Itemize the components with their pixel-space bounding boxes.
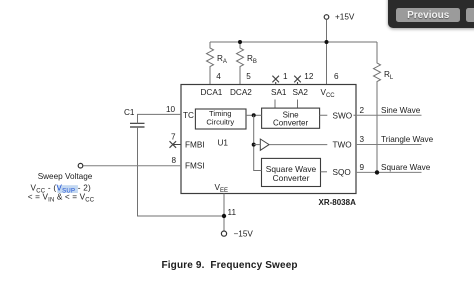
label TWO [333, 141, 352, 150]
wire buffer input [254, 144, 261, 146]
button Previous [396, 8, 460, 23]
svg-text:TWO: TWO [333, 141, 352, 150]
svg-text:6: 6 [334, 72, 339, 81]
label FMSI [185, 162, 205, 171]
label VEE pin [215, 183, 228, 194]
wire C1 bottom to VEE [138, 127, 225, 216]
svg-text:FMSI: FMSI [185, 162, 205, 171]
label XR-8038A [319, 198, 357, 207]
wire internal vertical [254, 115, 262, 170]
label RB [247, 54, 257, 65]
svg-text:XR-8038A: XR-8038A [319, 198, 357, 207]
label U1 [218, 138, 229, 147]
svg-text:SA2: SA2 [293, 88, 309, 97]
svg-text:VCC: VCC [321, 88, 336, 99]
svg-text:SWO: SWO [333, 111, 353, 120]
label sweep formula [31, 184, 92, 195]
label SA2 [293, 88, 309, 97]
pin 10 [166, 105, 176, 114]
wire top supply bus [210, 41, 377, 43]
svg-text:11: 11 [228, 208, 237, 217]
svg-text:C1: C1 [124, 108, 135, 117]
no-connect X pin 1 SA1 [272, 76, 279, 85]
button next fragment [466, 8, 474, 23]
svg-text:U1: U1 [218, 138, 229, 147]
svg-text:Circuitry: Circuitry [206, 118, 234, 127]
pin 4 [216, 72, 221, 81]
wire square wave output [356, 171, 422, 173]
svg-text:TC: TC [183, 111, 194, 120]
pin 7 [171, 133, 176, 142]
svg-text:Sweep Voltage: Sweep Voltage [38, 172, 93, 181]
wire VEE pin 11 [223, 194, 225, 231]
svg-text:−15V: −15V [234, 230, 254, 239]
svg-text:Figure 9. Frequency Sweep: Figure 9. Frequency Sweep [162, 260, 298, 271]
svg-text:4: 4 [216, 72, 221, 81]
node pin11 junction [222, 214, 226, 218]
block Sine Converter [262, 108, 320, 128]
wire SA2 stub [297, 100, 299, 109]
svg-text:Triangle Wave: Triangle Wave [381, 135, 434, 144]
block Timing Circuitry [195, 109, 246, 129]
svg-text:RL: RL [384, 70, 394, 81]
svg-text:8: 8 [172, 156, 177, 165]
svg-text:Square Wave: Square Wave [381, 163, 431, 172]
terminal sweep voltage [78, 163, 83, 168]
svg-text:DCA1: DCA1 [201, 88, 223, 97]
svg-text:5: 5 [246, 72, 251, 81]
wire sweep input FMSI [83, 165, 181, 167]
label SA1 [271, 88, 287, 97]
svg-text:Converter: Converter [273, 119, 308, 128]
pin 2 [360, 106, 365, 115]
label sweep range [28, 192, 95, 203]
no-connect X pin 12 SA2 [294, 76, 301, 85]
svg-text:10: 10 [166, 105, 176, 114]
node buffer junction [252, 143, 256, 147]
label +15V [335, 13, 355, 22]
svg-text:12: 12 [304, 72, 314, 81]
label C1 [124, 108, 135, 117]
resistor RL [374, 42, 381, 172]
svg-text:2: 2 [360, 106, 365, 115]
label VCC pin [321, 88, 336, 99]
label Triangle Wave [381, 135, 434, 144]
block Square Wave Converter [262, 158, 321, 186]
svg-text:1: 1 [283, 72, 288, 81]
+15V terminal [324, 15, 329, 20]
pin 12 [304, 72, 314, 81]
no-connect X pin 7 FMBI [170, 141, 182, 148]
junction VCC bus [325, 40, 329, 44]
svg-text:VEE: VEE [215, 183, 228, 194]
svg-text:SA1: SA1 [271, 88, 287, 97]
resistor RB [237, 42, 244, 85]
svg-text:9: 9 [360, 163, 365, 172]
svg-text:RA: RA [217, 54, 227, 65]
label FMBI [185, 141, 205, 150]
label Sweep Voltage [38, 172, 93, 181]
svg-text:+15V: +15V [335, 13, 355, 22]
wire timing to sine [246, 114, 262, 116]
capacitor C1 [130, 123, 145, 127]
pin 9 [360, 163, 365, 172]
wire TC pin10 [138, 114, 182, 123]
terminal -15V [221, 231, 226, 236]
label SQO [333, 168, 351, 177]
label RL [384, 70, 394, 81]
pin 3 [360, 135, 365, 144]
label Square Wave [381, 163, 431, 172]
svg-text:FMBI: FMBI [185, 141, 205, 150]
pin 5 [246, 72, 251, 81]
svg-text:3: 3 [360, 135, 365, 144]
pin 8 [172, 156, 177, 165]
node timing-sine junction [252, 113, 256, 117]
wire SA1 stub [274, 100, 276, 109]
svg-text:Sine Wave: Sine Wave [381, 106, 421, 115]
svg-text:RB: RB [247, 54, 257, 65]
label Sine Wave [381, 106, 421, 115]
wire VCC vertical [326, 20, 328, 85]
pin 11 [228, 208, 237, 217]
svg-text:SQO: SQO [333, 168, 351, 177]
junction RB top [238, 40, 242, 44]
label DCA2 [230, 88, 252, 97]
label TC [183, 111, 194, 120]
node RL bottom junction [375, 170, 379, 174]
svg-text:< = VIN & < = VCC: < = VIN & < = VCC [28, 192, 95, 203]
label SWO [333, 111, 353, 120]
wire SWO stub [320, 114, 356, 116]
wire sine wave output [356, 114, 422, 116]
wire SQO stub [321, 171, 328, 173]
op IC U1 outline XR-8038A [181, 85, 356, 194]
wire triangle wave output [356, 144, 422, 146]
label figure caption [162, 260, 298, 271]
pin 6 [334, 72, 339, 81]
resistor RA [207, 42, 214, 85]
svg-text:7: 7 [171, 133, 176, 142]
buffer amp triangle [260, 139, 269, 150]
svg-text:DCA2: DCA2 [230, 88, 252, 97]
label -15V [234, 230, 254, 239]
wire TWO [269, 144, 327, 146]
pin 1 [283, 72, 288, 81]
label RA [217, 54, 227, 65]
svg-text:Converter: Converter [273, 173, 310, 183]
label DCA1 [201, 88, 223, 97]
panel navigation bar [388, 0, 474, 28]
